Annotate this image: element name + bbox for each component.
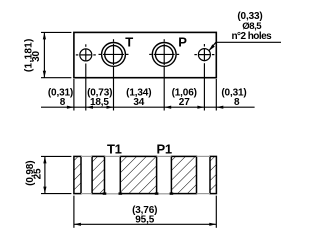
- horizontal dimension line: [41, 106, 255, 108]
- vertical dimension 25 extension lines: [41, 156, 71, 193]
- counterbore step feet P1: [155, 192, 159, 194]
- horizontal dimension extension lines below top view: [74, 63, 216, 110]
- svg-text:25: 25: [33, 168, 44, 179]
- svg-text:30: 30: [31, 51, 42, 62]
- gray hole-opening segments bottom edge: [81, 193, 210, 195]
- section view: hatched block 3: [120, 156, 156, 193]
- section view: hatched block 1: [74, 156, 81, 193]
- section view: hatched block 4: [171, 156, 196, 193]
- port hole P (double circle): [149, 39, 179, 66]
- svg-text:34: 34: [133, 97, 144, 108]
- top view plate outline: [74, 32, 216, 77]
- gray hole-opening segments top edge: [81, 155, 210, 157]
- vertical dimension 25 arrows: [43, 156, 46, 163]
- vertical dimension 30 line: [43, 32, 45, 77]
- arrowheads on horizontal dimension line: [67, 106, 74, 109]
- bottom dimension 95,5 line: [74, 223, 216, 225]
- small hole left (8.5 dia): [76, 44, 96, 61]
- port hole T (double circle): [99, 39, 129, 66]
- svg-text:95,5: 95,5: [135, 214, 154, 225]
- vertical dimension 30 extension lines: [41, 32, 71, 77]
- bottom dimension 95,5 extension lines: [74, 196, 216, 228]
- vertical dimension 30 arrows: [43, 32, 46, 39]
- svg-text:8: 8: [234, 97, 240, 108]
- bottom dimension arrows: [74, 223, 81, 226]
- svg-text:P: P: [178, 35, 187, 50]
- leader to n.2 holes: [209, 42, 281, 51]
- counterbore step feet T1: [103, 192, 107, 194]
- small hole right (8.5 dia): [194, 44, 214, 61]
- svg-text:T1: T1: [107, 141, 122, 156]
- svg-text:27: 27: [179, 97, 190, 108]
- section view: hatched block 5: [210, 156, 216, 193]
- svg-text:T: T: [125, 35, 133, 50]
- vertical dimension 25 line: [44, 156, 46, 193]
- leader arrowhead: [208, 44, 214, 51]
- svg-text:P1: P1: [157, 141, 172, 156]
- svg-text:n°2 holes: n°2 holes: [231, 31, 272, 42]
- svg-text:18,5: 18,5: [90, 97, 109, 108]
- section view: hatched block 2: [92, 156, 104, 193]
- svg-text:8: 8: [60, 97, 66, 108]
